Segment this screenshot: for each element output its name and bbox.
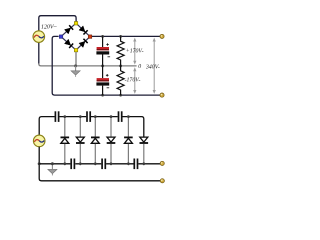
measure arrow +170V (top rail to mid): [133, 38, 136, 65]
junction dots D4: [110, 115, 113, 118]
AC source V1 120V: [33, 31, 45, 43]
wire source bottom down through rail junction to outer loop: [39, 147, 160, 181]
measure arrow 340V (full span): [153, 38, 156, 94]
diode D2 (down) with leads: [76, 117, 85, 164]
capacitor C2 (polarized, -170V side): [96, 66, 109, 95]
diode bridge bottom-right (bottom node to right node): [79, 41, 85, 47]
ground symbol (top circuit): [71, 66, 80, 77]
junction dot D6 bottom: [142, 162, 145, 165]
node right P (red): [88, 35, 92, 39]
measure arrow -170V (mid to bottom rail): [133, 67, 136, 94]
capacitor C8 (bottom row 3): [134, 159, 137, 170]
junction dot ground: [51, 162, 54, 165]
svg-text:0: 0: [138, 64, 141, 70]
wire from bridge left node down-around to negative bottom rail: [52, 36, 160, 95]
resistor R1 (bleeder upper): [117, 36, 124, 66]
wire from bridge right node to positive top rail: [92, 35, 161, 37]
terminal return (outer loop): [160, 179, 164, 183]
node top (yellow): [74, 22, 78, 26]
junction dots D3: [94, 115, 97, 118]
diode bridge bottom-left (left node to bottom node): [65, 39, 71, 45]
wire top rail seg2: [59, 116, 86, 118]
node left N (blue): [59, 35, 63, 39]
svg-text:120V~: 120V~: [41, 25, 57, 31]
capacitor C7 (bottom row 2): [102, 159, 105, 170]
junction dot resistor R1 bottom / mid: [119, 65, 122, 68]
bottom rail seg1: [39, 163, 70, 165]
diode D5 (up) with leads: [124, 117, 133, 164]
junction dot cap C1 top: [101, 35, 104, 38]
resistor R2 (bleeder lower): [117, 66, 124, 95]
diode D4 (down) with leads: [107, 117, 116, 164]
bottom rail seg3: [106, 163, 133, 165]
diode D3 (up) with leads: [91, 117, 100, 164]
bridge edge wires: [61, 23, 90, 50]
capacitor C4 (top row 2): [87, 111, 90, 122]
junction dots D2: [79, 115, 82, 118]
AC source V2: [33, 135, 45, 147]
junction dots D5: [127, 115, 130, 118]
diode bridge top-right (top node to right node): [79, 26, 85, 32]
wire from source top to bridge top node: [39, 16, 76, 31]
svg-text:+170V-: +170V-: [126, 48, 144, 54]
terminal + output (top): [160, 34, 164, 38]
ground symbol (bottom circuit): [48, 164, 57, 176]
wire source top + top rail with cap gaps + turn down to D6: [39, 117, 54, 135]
wire top rail seg4 + corner down to diode D6: [123, 117, 144, 137]
wire source bottom down to mid rail corner: [38, 42, 40, 63]
junction dot bridge-bottom at mid rail: [74, 64, 77, 67]
junction dot cap C2 bottom: [101, 94, 104, 97]
junction dot source / bottom rail: [38, 162, 41, 165]
junction dot resistor R2 bottom: [119, 94, 122, 97]
capacitor C3 (top row 1): [55, 111, 58, 122]
capacitor C5 (top row 3): [119, 111, 122, 122]
bottom rail seg4: [138, 163, 160, 165]
terminal - output (bottom): [160, 93, 164, 97]
diode D1 (up) with leads: [61, 117, 70, 164]
bottom rail seg2: [75, 163, 101, 165]
node bottom (yellow): [74, 48, 78, 52]
capacitor C1 (polarized, +170V side): [96, 36, 110, 66]
svg-text:340V-: 340V-: [145, 63, 160, 70]
junction dot resistor R1 top: [119, 35, 122, 38]
diode D6 (down) with leads: [140, 137, 149, 164]
wire bridge bottom node to mid rail (gray stub): [75, 52, 77, 66]
junction dots D1: [63, 115, 66, 118]
svg-text:-170V-: -170V-: [125, 78, 141, 84]
terminal HV output (bottom rail): [160, 161, 164, 165]
diode bridge top-left (left node to top node): [65, 28, 71, 34]
wire top rail seg3: [91, 116, 118, 118]
capacitor C6 (bottom row 1): [71, 159, 74, 170]
wire mid rail (0V) gray: [39, 64, 137, 66]
junction dot cap C1 bottom / mid: [101, 65, 104, 68]
